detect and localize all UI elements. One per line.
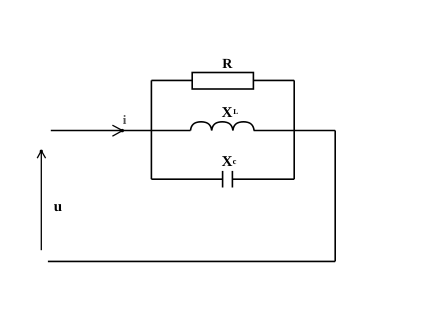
current arrow i (arrowhead on input lead) — [112, 125, 124, 136]
svg-text:X: X — [222, 154, 233, 170]
svg-text:L: L — [233, 107, 238, 116]
wire: top branch right lead from resistor — [253, 79, 294, 81]
capacitor XC (two plates) — [223, 171, 233, 188]
svg-text:c: c — [233, 156, 237, 166]
wire: top branch left lead to resistor — [151, 79, 192, 81]
label XL — [222, 105, 239, 121]
inductor XL (three humps) — [191, 122, 255, 131]
svg-text:R: R — [222, 57, 233, 72]
wire: bottom return — [48, 260, 335, 262]
svg-text:X: X — [222, 105, 233, 121]
svg-text:u: u — [54, 199, 62, 215]
wire: input lead (left horizontal into node) — [51, 130, 152, 132]
wire: right vertical return — [334, 131, 336, 262]
wire: bottom branch right lead from capacitor — [232, 178, 294, 180]
svg-text:i: i — [123, 112, 127, 127]
wire: left branch bus (box left vertical) — [150, 80, 152, 179]
wire: right branch bus (box right vertical) — [293, 80, 295, 179]
voltage arrow u (vertical, pointing up) — [37, 150, 45, 251]
wire: middle branch right segment + output lead — [254, 130, 336, 132]
label XC — [222, 154, 237, 170]
resistor R — [192, 73, 253, 90]
wire: bottom branch left lead to capacitor — [151, 178, 222, 180]
wire: middle branch left segment — [151, 130, 190, 132]
